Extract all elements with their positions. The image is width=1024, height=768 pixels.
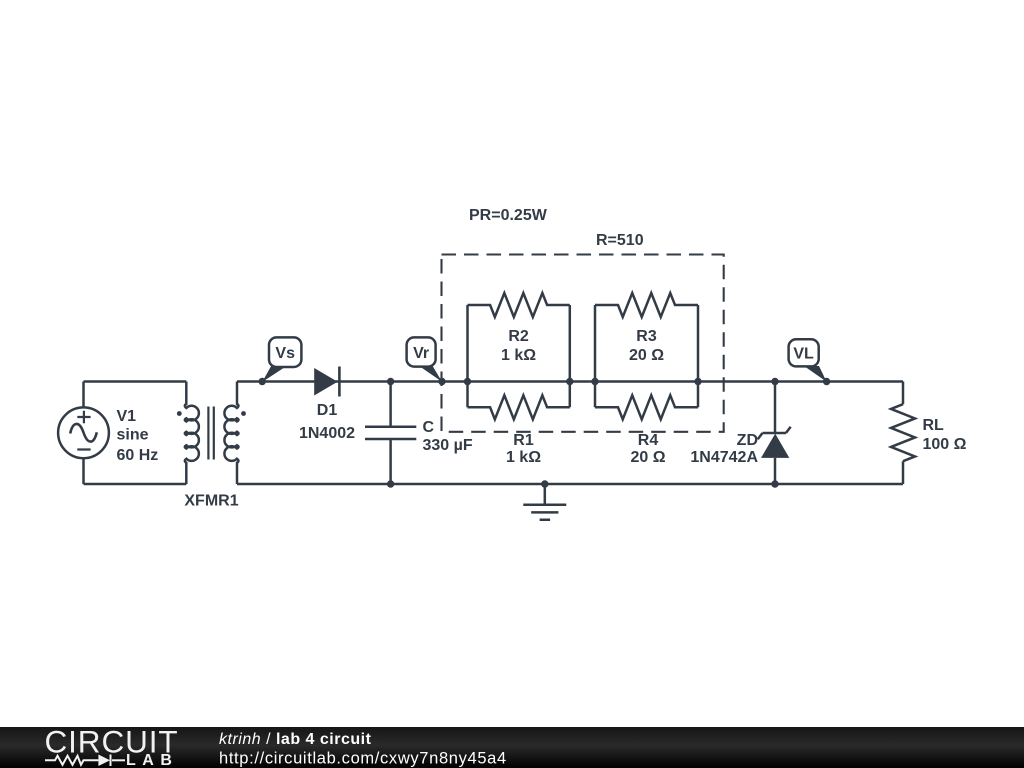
svg-text:1 kΩ: 1 kΩ xyxy=(506,449,541,466)
svg-text:20 Ω: 20 Ω xyxy=(630,449,665,466)
svg-text:LAB: LAB xyxy=(126,752,178,768)
svg-text:RL: RL xyxy=(923,417,945,434)
svg-text:ZD: ZD xyxy=(737,432,758,449)
svg-text:20 Ω: 20 Ω xyxy=(629,347,664,364)
svg-text:R=510: R=510 xyxy=(596,232,644,249)
svg-text:1 kΩ: 1 kΩ xyxy=(501,347,536,364)
svg-text:R4: R4 xyxy=(638,432,659,449)
svg-text:XFMR1: XFMR1 xyxy=(184,493,238,510)
svg-text:1N4002: 1N4002 xyxy=(299,425,355,442)
svg-text:R2: R2 xyxy=(508,328,529,345)
svg-text:330 µF: 330 µF xyxy=(423,437,473,454)
svg-text:sine: sine xyxy=(117,427,149,444)
svg-text:VL: VL xyxy=(793,346,814,363)
svg-text:100 Ω: 100 Ω xyxy=(923,436,967,453)
svg-text:R3: R3 xyxy=(636,328,657,345)
svg-text:1N4742A: 1N4742A xyxy=(690,449,758,466)
svg-text:60 Hz: 60 Hz xyxy=(117,447,159,464)
svg-text:Vs: Vs xyxy=(275,345,295,362)
svg-text:V1: V1 xyxy=(117,408,137,425)
svg-text:Vr: Vr xyxy=(413,345,429,362)
svg-text:C: C xyxy=(423,419,435,436)
svg-text:D1: D1 xyxy=(317,402,338,419)
svg-text:ktrinh / lab 4 circuit: ktrinh / lab 4 circuit xyxy=(219,731,372,748)
svg-text:http://circuitlab.com/cxwy7n8n: http://circuitlab.com/cxwy7n8ny45a4 xyxy=(219,750,507,768)
svg-text:PR=0.25W: PR=0.25W xyxy=(469,207,548,224)
svg-text:R1: R1 xyxy=(513,432,534,449)
